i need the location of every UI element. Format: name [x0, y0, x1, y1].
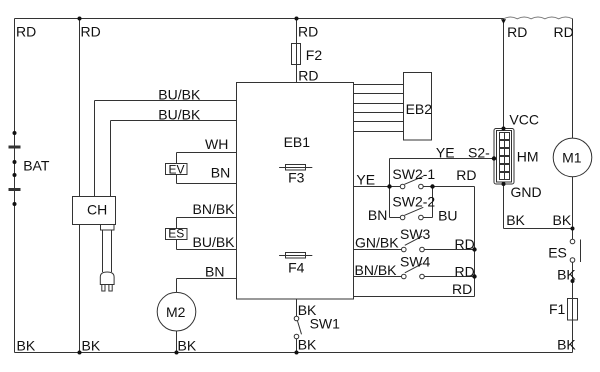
svg-text:M1: M1 [562, 149, 582, 165]
svg-text:VCC: VCC [509, 111, 539, 127]
svg-text:BU: BU [438, 208, 457, 224]
svg-text:YE: YE [356, 171, 375, 187]
svg-text:S2-: S2- [468, 145, 490, 161]
svg-text:RD: RD [81, 23, 101, 39]
svg-text:BN: BN [368, 207, 387, 223]
svg-text:BU/BK: BU/BK [158, 86, 201, 102]
svg-text:ES: ES [548, 245, 567, 261]
svg-text:YE: YE [436, 145, 455, 161]
svg-text:RD: RD [298, 23, 318, 39]
svg-text:SW2-2: SW2-2 [392, 193, 435, 209]
svg-text:BK: BK [82, 338, 101, 354]
svg-text:SW3: SW3 [400, 226, 431, 242]
svg-text:BU/BK: BU/BK [193, 234, 236, 250]
svg-text:BK: BK [506, 212, 525, 228]
svg-text:RD: RD [452, 281, 472, 297]
svg-text:BN/BK: BN/BK [193, 201, 236, 217]
svg-text:RD: RD [554, 24, 574, 40]
svg-text:SW1: SW1 [310, 316, 341, 332]
svg-text:WH: WH [205, 136, 228, 152]
svg-text:M2: M2 [166, 304, 186, 320]
svg-text:RD: RD [456, 167, 476, 183]
svg-text:RD: RD [507, 24, 527, 40]
svg-text:BN: BN [205, 263, 224, 279]
svg-text:RD: RD [455, 263, 475, 279]
svg-text:EB2: EB2 [406, 101, 433, 117]
svg-text:BK: BK [178, 338, 197, 354]
svg-text:F3: F3 [288, 170, 305, 186]
svg-text:F4: F4 [288, 260, 305, 276]
svg-text:BK: BK [557, 267, 576, 283]
svg-text:BK: BK [17, 338, 36, 354]
svg-text:ES: ES [168, 227, 184, 241]
svg-text:CH: CH [87, 201, 107, 217]
svg-text:BN/BK: BN/BK [355, 262, 398, 278]
svg-text:BAT: BAT [23, 158, 50, 174]
svg-text:BK: BK [298, 337, 317, 353]
svg-text:SW2-1: SW2-1 [392, 166, 435, 182]
svg-text:EV: EV [169, 162, 185, 176]
svg-text:RD: RD [455, 236, 475, 252]
svg-text:SW4: SW4 [400, 253, 431, 269]
svg-text:F2: F2 [306, 47, 323, 63]
svg-text:BU/BK: BU/BK [158, 106, 201, 122]
svg-text:RD: RD [298, 68, 318, 84]
svg-text:EB1: EB1 [284, 134, 311, 150]
svg-text:HM: HM [517, 148, 539, 164]
svg-text:BN: BN [211, 165, 230, 181]
svg-text:F1: F1 [549, 301, 566, 317]
svg-text:RD: RD [16, 23, 36, 39]
svg-text:GN/BK: GN/BK [355, 235, 399, 251]
svg-text:GND: GND [511, 184, 542, 200]
svg-text:BK: BK [553, 212, 572, 228]
svg-text:BK: BK [557, 337, 576, 353]
